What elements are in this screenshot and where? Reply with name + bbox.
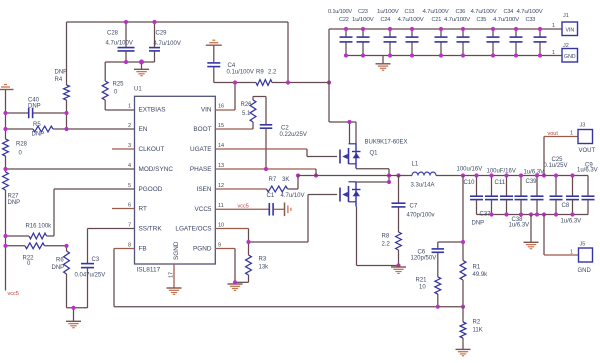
- svg-text:RT: RT: [139, 206, 147, 213]
- wire VIN to Q1 drain: [329, 122, 356, 144]
- capacitor C28 4.7u/100V: [106, 22, 135, 62]
- svg-text:3K: 3K: [282, 177, 289, 183]
- wire C3/R6 ground link: [67, 307, 88, 309]
- svg-text:R1: R1: [473, 265, 481, 271]
- svg-text:PGOOD: PGOOD: [139, 186, 163, 193]
- resistor R5 (DNP) EN wire: [6, 122, 135, 137]
- resistor R21 10: [416, 277, 441, 307]
- svg-text:C36: C36: [456, 9, 466, 15]
- wire VIN bus rail top: [329, 29, 562, 122]
- transistor Q1 upper BUK9K17-60EX: [340, 140, 408, 169]
- connector J2 GND: [552, 43, 578, 62]
- capacitor C35 4.7u/100V: [487, 29, 500, 56]
- svg-text:C39: C39: [526, 179, 538, 185]
- svg-text:5.1: 5.1: [242, 111, 251, 117]
- svg-text:4.7u/100V: 4.7u/100V: [423, 9, 449, 15]
- resistor R1 49.9k: [460, 261, 488, 307]
- svg-text:4.7u/10V: 4.7u/10V: [281, 193, 305, 199]
- svg-text:C34: C34: [504, 9, 514, 15]
- svg-text:1u/6.3V: 1u/6.3V: [524, 170, 545, 176]
- svg-text:C8: C8: [562, 203, 570, 209]
- svg-text:0.1u/100V: 0.1u/100V: [227, 70, 254, 76]
- svg-text:10: 10: [419, 285, 426, 291]
- svg-text:1u/100V: 1u/100V: [352, 17, 374, 23]
- capacitor C29 4.7u/100V: [149, 22, 181, 62]
- svg-text:R8: R8: [382, 234, 390, 240]
- svg-text:C21: C21: [432, 17, 442, 23]
- resistor R26 5.1 boot: [215, 97, 266, 130]
- svg-text:PGND: PGND: [193, 246, 212, 253]
- svg-text:BOOT: BOOT: [193, 126, 211, 133]
- svg-text:C4: C4: [228, 63, 236, 69]
- svg-text:15: 15: [218, 123, 224, 129]
- ground top cap bank: [376, 56, 391, 71]
- svg-text:8: 8: [128, 243, 131, 249]
- capacitor C24 1u/100V: [384, 29, 397, 56]
- output cap labels: [457, 157, 598, 229]
- svg-text:10: 10: [218, 223, 224, 229]
- svg-text:1u/100V: 1u/100V: [377, 9, 399, 15]
- wire left rail segments: [5, 113, 7, 291]
- svg-text:R16 100k: R16 100k: [26, 224, 53, 230]
- svg-text:3.3u/14A: 3.3u/14A: [411, 183, 435, 189]
- junction dots GND rail: [344, 53, 542, 57]
- svg-text:vcc5: vcc5: [238, 204, 249, 210]
- svg-text:VOUT: VOUT: [579, 148, 596, 154]
- svg-text:4.7u/100V: 4.7u/100V: [493, 17, 519, 23]
- connector J5 GND: [544, 215, 593, 275]
- svg-text:R21: R21: [416, 278, 428, 284]
- capacitor C9 output: [582, 176, 595, 215]
- svg-text:C9: C9: [585, 163, 593, 169]
- svg-text:2.2: 2.2: [382, 242, 391, 248]
- resistor R22 0: [6, 243, 67, 267]
- wire CLKOUT stub pin3: [112, 148, 135, 150]
- resistor R27 (DNP): [3, 172, 21, 206]
- svg-text:PHASE: PHASE: [190, 166, 212, 173]
- ground below C28/C29: [134, 62, 149, 76]
- junction dots vout rail: [461, 173, 575, 177]
- svg-text:EXTBIAS: EXTBIAS: [139, 107, 166, 114]
- svg-text:0.22u/25V: 0.22u/25V: [280, 132, 307, 138]
- capacitor C25 output: [550, 176, 563, 215]
- resistor R9 2.2 with VIN wire: [214, 70, 329, 86]
- svg-text:R25: R25: [113, 82, 125, 88]
- wire PHASE pin13: [215, 169, 316, 176]
- junction dots R3: [233, 240, 251, 285]
- svg-text:C7: C7: [410, 204, 418, 210]
- svg-text:C1: C1: [267, 193, 275, 199]
- capacitor C21 4.7u/100V: [435, 29, 448, 56]
- svg-text:J2: J2: [563, 43, 569, 49]
- capacitor C10 output: [470, 176, 483, 215]
- svg-text:R28: R28: [16, 142, 28, 148]
- ground SGND pin17: [167, 287, 182, 289]
- resistor R16 100k with PGOOD wire: [6, 189, 135, 239]
- svg-text:GND: GND: [578, 268, 592, 274]
- resistor R3 13k: [235, 242, 269, 282]
- svg-text:R7: R7: [269, 177, 277, 183]
- svg-text:4.7u/100V: 4.7u/100V: [106, 41, 133, 47]
- svg-text:R6: R6: [56, 258, 64, 264]
- svg-text:C33: C33: [526, 17, 536, 23]
- resistor R2 11K: [460, 307, 483, 349]
- junction dots output bottom rail: [489, 212, 574, 216]
- resistor R28 0: [3, 139, 28, 157]
- svg-text:13k: 13k: [259, 265, 270, 271]
- resistor R25 0: [102, 81, 134, 110]
- svg-text:1: 1: [552, 50, 555, 56]
- svg-text:5: 5: [128, 183, 131, 189]
- svg-text:R4: R4: [55, 77, 63, 83]
- svg-text:DNP: DNP: [32, 132, 45, 138]
- connector J1 VIN: [552, 13, 578, 36]
- junction dots VIN rail: [344, 27, 542, 31]
- svg-text:4.7u/100V: 4.7u/100V: [444, 17, 470, 23]
- transistor Q1 lower: [340, 182, 361, 207]
- svg-text:EN: EN: [139, 126, 148, 133]
- junction dot C2 phase: [264, 167, 268, 171]
- svg-text:VCC5: VCC5: [194, 206, 211, 213]
- ground below R2: [456, 348, 471, 350]
- wire vout rail: [436, 175, 588, 177]
- junction dots phase node: [296, 173, 401, 184]
- svg-text:13: 13: [218, 163, 224, 169]
- svg-text:12: 12: [218, 183, 224, 189]
- svg-text:17: 17: [169, 272, 175, 278]
- wire top-left EXTBIAS supply rail: [67, 22, 289, 129]
- svg-text:16: 16: [218, 104, 224, 110]
- resistor R8 2.2: [382, 232, 402, 266]
- svg-text:UGATE: UGATE: [190, 146, 212, 153]
- resistor R6 (DNP): [52, 246, 70, 308]
- wire GND bus rail: [346, 55, 562, 57]
- ground PGND: [228, 282, 243, 290]
- junction dots left rail: [3, 111, 75, 310]
- svg-text:3: 3: [128, 143, 131, 149]
- svg-text:C2: C2: [281, 126, 289, 132]
- pin numbers U1 right: [218, 104, 224, 249]
- ground top of left vcc5 rail: [0, 85, 14, 114]
- svg-text:R26: R26: [241, 102, 253, 108]
- resistor R4 (DNP): [55, 70, 70, 101]
- wire RT stub pin6: [112, 208, 135, 210]
- capacitor C34 4.7u/100V: [510, 29, 523, 56]
- svg-text:0.047u/25V: 0.047u/25V: [75, 273, 106, 279]
- capacitor C40 (DNP): [6, 98, 67, 119]
- svg-text:11: 11: [218, 203, 224, 209]
- ground above C4: [206, 40, 222, 62]
- junction dots VIN node: [233, 80, 331, 84]
- capacitor C39 output: [531, 176, 544, 215]
- svg-text:0.1u/100V: 0.1u/100V: [328, 9, 352, 15]
- svg-text:470p/100v: 470p/100v: [407, 213, 435, 219]
- capacitor C22 0.1u/100V: [340, 29, 353, 56]
- svg-text:DNP: DNP: [55, 70, 68, 76]
- wire VIN pin16 riser: [215, 83, 235, 111]
- wire PGND pin9: [215, 249, 235, 283]
- svg-text:14: 14: [218, 143, 224, 149]
- svg-text:7: 7: [128, 223, 131, 229]
- svg-text:C10: C10: [464, 180, 476, 186]
- capacitor C3 0.047u/25V with SS/TRK wire: [75, 229, 135, 308]
- svg-text:2: 2: [128, 123, 131, 129]
- svg-text:1: 1: [552, 23, 555, 29]
- capacitor C37 output: [485, 176, 498, 215]
- wire UGATE pin14 to upper gate: [215, 149, 337, 157]
- svg-text:VIN: VIN: [201, 107, 212, 114]
- wire FB net: [114, 249, 463, 307]
- svg-text:C23: C23: [358, 9, 368, 15]
- resistor R7 3K ISEN: [215, 176, 298, 192]
- svg-text:100u/16V: 100u/16V: [457, 167, 483, 173]
- svg-text:DNP: DNP: [472, 221, 485, 227]
- svg-text:120p/50V: 120p/50V: [411, 256, 437, 262]
- capacitor C7 470p/100v: [392, 176, 435, 233]
- op-amp U1 ISL8117 controller IC: [134, 87, 215, 274]
- svg-text:4.7u/100V: 4.7u/100V: [398, 17, 424, 23]
- svg-text:6: 6: [128, 203, 131, 209]
- wire MOD/SYNC to left rail: [6, 168, 135, 170]
- capacitor bank labels row2: [339, 17, 535, 23]
- wire vout sense riser: [462, 176, 464, 261]
- capacitor C1 4.7u/10V VCC5: [215, 193, 304, 216]
- svg-text:R2: R2: [473, 320, 481, 326]
- pin numbers U1 left: [128, 104, 131, 249]
- wire upper source to phase: [356, 169, 389, 182]
- svg-text:C28: C28: [107, 30, 119, 36]
- capacitor C11 output: [500, 176, 513, 215]
- svg-text:Q1: Q1: [370, 151, 379, 157]
- svg-text:MOD/SYNC: MOD/SYNC: [139, 166, 174, 173]
- capacitor C8 output: [566, 176, 579, 215]
- svg-text:49.9k: 49.9k: [473, 272, 489, 278]
- svg-text:vout: vout: [548, 131, 559, 137]
- junction dot Q1 drain: [347, 120, 351, 124]
- wire phase rail: [298, 175, 412, 177]
- svg-text:SGND: SGND: [173, 241, 180, 260]
- connector J3 VOUT: [544, 123, 596, 176]
- capacitor C4 0.1u/100V: [207, 63, 254, 83]
- svg-text:4: 4: [128, 163, 131, 169]
- capacitor C13 4.7u/100V: [406, 29, 419, 56]
- svg-text:C24: C24: [381, 17, 391, 23]
- junction dot R8 ground: [396, 263, 400, 267]
- svg-text:1u/6.3V: 1u/6.3V: [561, 219, 582, 225]
- svg-text:J5: J5: [580, 242, 586, 248]
- svg-text:DNP: DNP: [8, 200, 21, 206]
- junction dots FB divider: [436, 240, 465, 309]
- pin 17 SGND stem and label: [169, 264, 175, 288]
- svg-text:vcc5: vcc5: [8, 291, 19, 297]
- svg-text:4.7u/100V: 4.7u/100V: [471, 9, 497, 15]
- svg-text:VIN: VIN: [565, 27, 574, 33]
- svg-text:2.2: 2.2: [268, 70, 277, 76]
- inductor L1 3.3u/14A: [411, 162, 437, 189]
- junction dots top-left rail: [124, 20, 157, 65]
- capacitor C2 0.22u/25V boot: [260, 97, 307, 170]
- svg-text:GND: GND: [564, 54, 576, 60]
- ground output bank: [524, 215, 539, 249]
- svg-text:9: 9: [218, 243, 221, 249]
- svg-text:C11: C11: [495, 180, 506, 186]
- svg-text:DNP: DNP: [52, 265, 65, 271]
- capacitor C38 output: [515, 176, 528, 215]
- svg-text:R3: R3: [259, 257, 267, 263]
- wire top-left rail drop to VIN: [287, 22, 289, 83]
- svg-text:J1: J1: [563, 13, 569, 19]
- svg-text:C13: C13: [405, 9, 415, 15]
- svg-text:4.7u/100V: 4.7u/100V: [517, 9, 543, 15]
- svg-text:R9: R9: [256, 70, 264, 76]
- capacitor C23 1u/100V: [357, 29, 370, 56]
- wire output bottom rail: [477, 214, 589, 216]
- svg-text:1: 1: [570, 131, 573, 137]
- svg-text:C3: C3: [92, 257, 100, 263]
- svg-text:ISL8117: ISL8117: [137, 267, 161, 274]
- svg-text:11K: 11K: [473, 328, 483, 334]
- svg-text:C35: C35: [477, 17, 487, 23]
- capacitor C33 4.7u/100V: [534, 29, 547, 56]
- ground below R8: [391, 266, 406, 274]
- capacitor C6 120p/50V: [411, 242, 464, 277]
- svg-text:J3: J3: [580, 123, 586, 129]
- svg-text:0.1u/25V: 0.1u/25V: [544, 163, 568, 169]
- svg-text:4.7u/100V: 4.7u/100V: [154, 41, 181, 47]
- ground below R6/C3: [66, 308, 81, 328]
- svg-text:BUK9K17-60EX: BUK9K17-60EX: [365, 140, 408, 146]
- svg-text:R5: R5: [33, 122, 41, 128]
- svg-text:1: 1: [570, 250, 573, 256]
- svg-text:SS/TRK: SS/TRK: [139, 226, 163, 233]
- capacitor bank labels row1: [328, 9, 543, 15]
- wire lower source to ground rail: [357, 207, 399, 266]
- svg-text:U1: U1: [134, 87, 142, 93]
- svg-text:1: 1: [128, 104, 131, 110]
- svg-text:CLKOUT: CLKOUT: [139, 146, 165, 153]
- svg-text:ISEN: ISEN: [197, 186, 212, 193]
- svg-text:L1: L1: [412, 162, 419, 168]
- svg-text:DNP: DNP: [28, 104, 41, 110]
- wire C28/C29 bottom to R25: [105, 62, 154, 81]
- svg-text:R27: R27: [8, 194, 20, 200]
- ground right of C1: [284, 203, 286, 217]
- svg-text:C22: C22: [339, 17, 349, 23]
- svg-text:C29: C29: [156, 31, 168, 37]
- svg-text:FB: FB: [139, 246, 147, 253]
- wire LGATE pin10 to lower gate: [215, 195, 337, 243]
- svg-text:LGATE/OCS: LGATE/OCS: [175, 226, 211, 233]
- capacitor C36 4.7u/100V: [457, 29, 470, 56]
- svg-text:1u/6.3V: 1u/6.3V: [509, 223, 530, 229]
